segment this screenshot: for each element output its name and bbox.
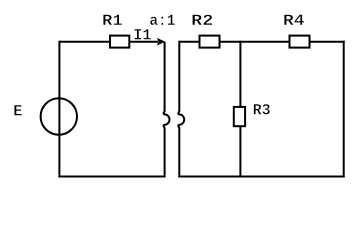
transformer primary winding (left vertical with loop bump)	[164, 42, 170, 178]
transformer secondary winding (right vertical with loop bump)	[178, 41, 184, 178]
svg-text:R4: R4	[283, 12, 305, 30]
svg-text:R2: R2	[191, 12, 213, 30]
wire left vertical (through source E)	[58, 41, 60, 178]
wire top-left horizontal (E loop top)	[59, 41, 158, 43]
svg-text:I1: I1	[133, 27, 151, 45]
svg-text:a:1: a:1	[149, 12, 175, 30]
wire bottom-right horizontal	[178, 176, 344, 178]
source E circle	[41, 98, 77, 134]
current arrow I1 head	[157, 38, 165, 46]
resistor R4	[290, 36, 310, 48]
wire middle vertical (R3 branch)	[239, 41, 241, 178]
svg-text:E: E	[13, 103, 22, 121]
svg-text:R1: R1	[102, 12, 123, 30]
resistor R1	[110, 36, 129, 48]
resistor R2	[200, 36, 220, 48]
wire bottom-left horizontal (E loop bottom)	[58, 176, 165, 178]
wire right vertical	[343, 41, 345, 178]
svg-text:R3: R3	[253, 102, 271, 120]
wire top-right horizontal (R2/R4 branch)	[179, 41, 344, 43]
resistor R3	[234, 107, 245, 126]
